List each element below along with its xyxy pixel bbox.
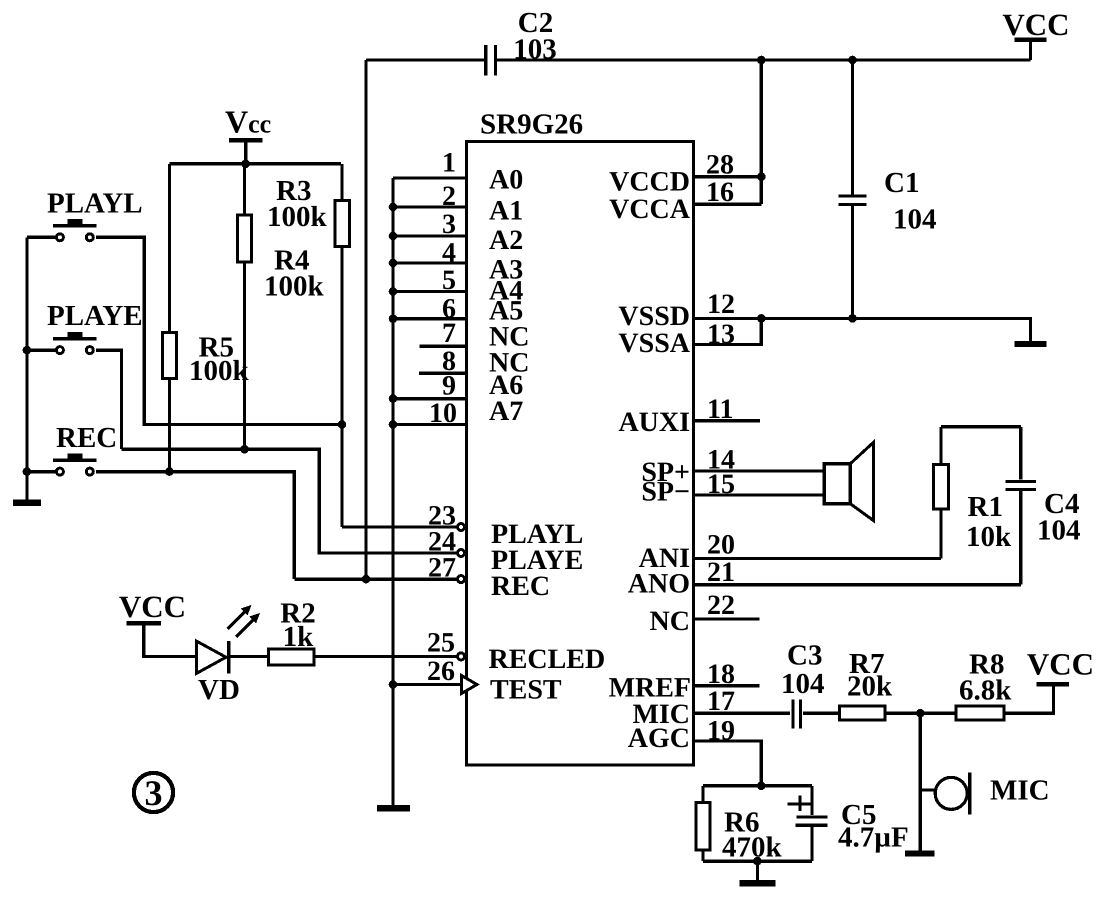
wire pin28 VCCD: [694, 175, 762, 178]
svg-text:REC: REC: [56, 422, 117, 454]
svg-text:RECLED: RECLED: [489, 644, 606, 675]
junction left rail REC: [23, 467, 32, 476]
junction bus pin9: [389, 394, 398, 403]
svg-text:VSSA: VSSA: [618, 328, 690, 359]
svg-text:SR9G26: SR9G26: [480, 109, 583, 141]
wire R1 C4 top rail: [941, 425, 1021, 428]
wire pin13 VSSA: [694, 318, 762, 344]
svg-text:PLAYE: PLAYE: [47, 300, 143, 332]
wire pin19 AGC: [694, 741, 762, 786]
svg-text:REC: REC: [491, 571, 550, 602]
wire pin1 A0: [393, 176, 467, 179]
ground mic: [905, 850, 935, 856]
svg-text:VCC: VCC: [1002, 7, 1069, 42]
svg-text:PLAYL: PLAYL: [47, 188, 143, 220]
svg-text:10: 10: [429, 398, 457, 429]
junction C1 top: [848, 56, 857, 65]
svg-text:VCC: VCC: [1027, 647, 1094, 682]
power VCC top-right bar: [1015, 38, 1047, 43]
junction MIC node: [916, 709, 925, 718]
svg-text:21: 21: [707, 557, 735, 588]
resistor R8: [956, 686, 1054, 720]
wire bottom rail to ground: [756, 861, 759, 880]
wire VCC top-right stem: [1029, 41, 1032, 60]
wire R6 C5 top rail: [703, 784, 812, 787]
svg-text:104: 104: [893, 204, 937, 236]
svg-text:VD: VD: [198, 674, 240, 706]
wire pin16 VCCA: [694, 202, 762, 205]
svg-text:15: 15: [707, 469, 735, 500]
microphone MIC: [935, 772, 969, 814]
junction bus pin2: [389, 203, 398, 212]
wire pin6 A5: [393, 317, 467, 320]
wire pin4 A3: [393, 261, 467, 264]
resistor R4: [238, 164, 252, 449]
switch PLAYE button: [53, 332, 97, 354]
power VCC bar LED branch: [126, 621, 161, 626]
wire C2 left vertical to REC: [364, 60, 367, 579]
IC U1 SR9G26 body: [467, 109, 694, 766]
svg-text:3: 3: [145, 773, 163, 813]
wire pin7 NC stub: [420, 345, 467, 348]
resistor R2: [229, 649, 457, 665]
svg-text:Vcc: Vcc: [225, 104, 271, 140]
power Vcc top-left bar: [229, 138, 263, 143]
wire top rail left of C2: [366, 58, 484, 61]
switch REC button: [53, 453, 97, 475]
pin circle 23: [458, 524, 465, 531]
svg-text:4.7µF: 4.7µF: [838, 822, 909, 854]
wire VCC vertical to pins 28 16: [760, 60, 763, 204]
ground left rail: [13, 500, 41, 506]
svg-text:VCCA: VCCA: [609, 194, 691, 225]
wire pin12 VSSD to ground: [694, 318, 1031, 341]
wire pin3 A2: [393, 234, 467, 237]
junction bus pin26 TEST: [389, 680, 398, 689]
svg-text:26: 26: [427, 656, 455, 687]
wire mic stub: [920, 788, 936, 791]
wire pin21 ANO: [694, 583, 1021, 586]
wire C3 to R7: [803, 712, 840, 715]
svg-text:VCC: VCC: [119, 589, 186, 624]
junction C2 vertical REC line: [362, 575, 371, 584]
junction bus pin10: [389, 420, 398, 429]
wire R6 C5 bottom rail: [703, 859, 812, 862]
capacitor C5 polarized: [788, 786, 828, 861]
pin circle 24: [458, 550, 465, 557]
svg-text:A1: A1: [489, 196, 523, 227]
wire left common vertical: [27, 237, 55, 500]
wire PLAYL button to R3: [96, 237, 342, 424]
svg-text:104: 104: [1037, 515, 1081, 547]
wire pin17 MIC to C3: [694, 712, 791, 715]
junction R5 REC line: [165, 467, 174, 476]
svg-text:R1: R1: [968, 491, 1003, 523]
wire pin18 MREF stub: [694, 684, 760, 687]
svg-text:TEST: TEST: [490, 675, 562, 706]
svg-text:100k: 100k: [267, 201, 328, 233]
svg-text:22: 22: [707, 590, 735, 621]
speaker: [824, 442, 873, 520]
pin circle 25: [458, 653, 465, 660]
wire pin23 PLAYL: [342, 525, 457, 528]
junction C1 VSS line: [848, 314, 857, 323]
svg-text:25: 25: [427, 628, 455, 659]
junction bus pin6: [389, 314, 398, 323]
junction bus pin3: [389, 232, 398, 241]
svg-text:SP−: SP−: [641, 477, 690, 508]
wire Vcc stem: [244, 142, 247, 164]
svg-text:11: 11: [707, 394, 733, 425]
svg-text:10k: 10k: [966, 521, 1012, 553]
capacitor C4: [1006, 427, 1037, 585]
wire mic branch vertical: [919, 713, 922, 851]
svg-text:A7: A7: [489, 396, 523, 427]
ground bus bottom: [377, 805, 410, 811]
arrow pin26 TEST: [462, 676, 478, 694]
junction R4 PLAYE line: [240, 445, 249, 454]
svg-text:19: 19: [707, 716, 735, 747]
junction VCC top wire: [757, 56, 766, 65]
wire pin27 REC: [294, 577, 457, 580]
svg-text:A2: A2: [489, 225, 523, 256]
resistor R5: [162, 164, 176, 472]
wire pin2 A1: [393, 205, 467, 208]
junction Vcc rail R4: [241, 160, 250, 169]
junction bus pin5: [389, 287, 398, 296]
wire PLAYE button right: [96, 350, 122, 449]
resistor R7: [840, 706, 956, 720]
wire pin10 A7: [393, 423, 467, 426]
svg-text:27: 27: [428, 553, 456, 584]
svg-text:9: 9: [442, 371, 456, 402]
wire pin15 SP-: [694, 493, 825, 496]
svg-text:ANO: ANO: [628, 569, 690, 600]
wire pin9 A6: [393, 397, 467, 400]
ground R6 C5: [740, 880, 776, 886]
svg-text:17: 17: [707, 686, 735, 717]
wire ground bus vertical: [391, 178, 394, 806]
capacitor C1: [839, 60, 867, 318]
resistor R1: [933, 427, 948, 559]
LED arrow 1: [228, 605, 252, 629]
pin circle 27: [458, 576, 465, 583]
svg-text:100k: 100k: [264, 271, 325, 303]
wire pin11 AUXI stub: [694, 419, 761, 422]
svg-text:6.8k: 6.8k: [959, 675, 1012, 707]
symbol circled 3: [134, 773, 173, 813]
junction R3 PLAYL line: [338, 420, 347, 429]
capacitor C3: [793, 699, 801, 728]
svg-text:NC: NC: [650, 606, 690, 637]
power VCC right bar: [1036, 682, 1069, 687]
svg-text:100k: 100k: [189, 355, 250, 387]
svg-text:12: 12: [707, 289, 735, 320]
svg-text:104: 104: [781, 668, 825, 700]
svg-text:4: 4: [442, 237, 456, 268]
svg-text:A0: A0: [489, 165, 523, 196]
diode VD LED: [196, 641, 228, 674]
wire pin5 A4: [393, 290, 467, 293]
svg-text:5: 5: [442, 265, 456, 296]
wire pin14 SP+: [694, 469, 825, 472]
svg-text:VCCD: VCCD: [609, 167, 690, 198]
wire pin24 PLAYE: [122, 449, 457, 553]
svg-text:1: 1: [442, 148, 456, 179]
svg-text:C3: C3: [787, 640, 822, 672]
switch PLAYL button: [53, 219, 97, 241]
capacitor C2: [486, 45, 496, 76]
svg-text:C1: C1: [884, 167, 919, 199]
wire pin22 NC stub: [694, 617, 760, 620]
LED arrow 2: [236, 613, 260, 637]
wire pin8 NC stub: [419, 371, 467, 374]
svg-text:16: 16: [706, 177, 734, 208]
junction left rail PLAYE: [23, 346, 32, 355]
svg-text:20k: 20k: [847, 671, 893, 703]
wire REC line: [96, 472, 294, 579]
svg-text:28: 28: [706, 150, 734, 181]
svg-text:13: 13: [707, 319, 735, 350]
wire pin26 TEST: [393, 683, 461, 686]
svg-text:3: 3: [442, 209, 456, 240]
junction AGC R6 C5 top rail: [757, 782, 766, 791]
resistor R6: [696, 786, 710, 861]
svg-text:AGC: AGC: [628, 723, 690, 754]
junction pin13 VSS line: [757, 314, 766, 323]
svg-text:103: 103: [513, 34, 557, 66]
svg-text:2: 2: [442, 181, 456, 212]
svg-text:7: 7: [442, 318, 456, 349]
junction bottom rail ground: [753, 857, 762, 866]
svg-text:20: 20: [707, 530, 735, 561]
junction pin28: [757, 172, 766, 181]
ground VSS right: [1015, 341, 1047, 347]
junction bus pin4: [389, 259, 398, 268]
wire top rail right of C2: [497, 58, 1031, 61]
wire Vcc rail horizontal: [169, 162, 340, 165]
resistor R3: [335, 164, 349, 527]
svg-text:AUXI: AUXI: [618, 407, 690, 438]
svg-text:MIC: MIC: [990, 775, 1050, 807]
wire pin20 ANI: [694, 557, 942, 560]
svg-text:470k: 470k: [722, 832, 783, 864]
wire VCC to diode: [144, 625, 197, 656]
